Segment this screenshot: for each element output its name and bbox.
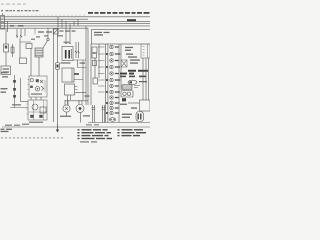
coil HT wire drop	[47, 28, 49, 38]
aux drop	[34, 28, 36, 34]
wire drops with connectors	[17, 29, 25, 38]
twisted pair 2	[102, 105, 106, 123]
solenoid resistor oval	[136, 112, 144, 122]
starter motor M2	[76, 105, 84, 113]
relay label	[61, 62, 71, 63]
relay assembly box 1	[28, 76, 48, 97]
small label between wires	[80, 62, 86, 63]
coil label	[31, 31, 52, 40]
ECU outline box	[92, 30, 152, 45]
second diagnostic wire	[20, 78, 22, 102]
fuse F1	[11, 44, 14, 57]
bus drop wires center	[58, 17, 78, 44]
wires near ECU	[91, 44, 99, 105]
wire into igniter top	[74, 60, 83, 100]
legend column B	[118, 129, 147, 136]
switch box	[20, 58, 27, 64]
relay coil 2	[35, 86, 44, 91]
feed wire to motors	[65, 100, 88, 102]
terminal blob left	[30, 115, 33, 118]
pin stub wires	[98, 47, 105, 92]
labels above bottom wire	[5, 124, 29, 126]
wires into M2	[79, 100, 82, 105]
box2 label below	[29, 122, 43, 123]
relay coil 3	[32, 104, 38, 110]
label box on bus right	[127, 19, 136, 21]
left small text rows	[1, 72, 8, 93]
connector drop wires	[76, 42, 79, 58]
sensor label row	[120, 76, 146, 78]
solenoid label	[122, 114, 132, 118]
wires into M1	[65, 100, 68, 105]
wire into box2 lower	[10, 107, 28, 109]
small comp boxes near ECU	[92, 47, 97, 66]
right component box J1	[141, 44, 150, 58]
label above wire	[12, 104, 21, 105]
sensor box lower	[93, 78, 98, 84]
relay coil 1	[30, 79, 33, 82]
dotted legend row	[1, 137, 63, 138]
noise filter box	[121, 60, 127, 67]
bus wire 1	[1, 16, 150, 18]
dark label dashes right	[120, 70, 148, 75]
junction box center	[53, 29, 58, 34]
terminal blob right	[39, 115, 42, 118]
wire to relay block	[30, 49, 32, 77]
resistor block	[62, 68, 74, 82]
wire stub x7.5	[7, 21, 9, 32]
right text rows mid	[126, 54, 140, 64]
bottom left text	[1, 129, 13, 133]
right text rows upper	[125, 47, 133, 51]
right bottom box	[140, 100, 151, 111]
coil secondary wire	[38, 57, 40, 76]
wire drop A	[5, 29, 7, 44]
lower bus line right	[88, 122, 150, 124]
wires box1 to box2	[31, 97, 41, 100]
dark terminal	[122, 98, 126, 101]
wire to box	[128, 102, 140, 104]
bus wire 4	[1, 23, 150, 25]
long wire x88	[87, 28, 89, 105]
long vertical wire x53.5	[53, 28, 55, 122]
wire into box2 upper	[21, 101, 29, 103]
right wires down	[143, 58, 149, 100]
sensor block gray	[122, 85, 140, 90]
connector arrows	[16, 35, 22, 37]
hatch strip in box1	[44, 80, 46, 92]
ECU inner label	[94, 32, 110, 36]
main relay U1	[62, 47, 73, 61]
switch feed wire	[20, 38, 31, 58]
legend column A	[78, 129, 113, 139]
relay connector marks	[65, 43, 71, 45]
labels under circles	[60, 115, 90, 117]
connector marks on drops	[75, 51, 80, 53]
legend footnote	[80, 141, 97, 142]
M2 tail wire	[80, 113, 82, 123]
bus wire 2	[1, 18, 88, 20]
splice marks on bus	[10, 25, 24, 26]
contact box 2	[40, 107, 46, 113]
fusible link block	[1, 13, 5, 29]
wires from ECU bottom right	[119, 44, 121, 123]
contact block dark	[36, 79, 39, 82]
ignition coil T1	[35, 38, 49, 57]
dark splice dash	[74, 73, 79, 75]
faint page header	[1, 4, 26, 5]
condenser on wire	[56, 63, 60, 70]
component box bottom left	[1, 66, 11, 75]
long vertical wire x57.5	[57, 28, 59, 130]
tiny label above bottom wires	[86, 124, 99, 125]
igniter circle M1	[63, 105, 70, 117]
connector label row top right	[88, 12, 150, 14]
title text top left	[1, 10, 39, 11]
tick wire	[76, 92, 86, 94]
wire color labels above bus	[4, 15, 84, 17]
label dashes under box	[2, 76, 8, 77]
small box mid left	[26, 44, 32, 49]
strip filled rows	[106, 53, 108, 114]
resistor R1	[4, 44, 9, 52]
label right of junction box	[57, 30, 76, 36]
ECU connector strip	[106, 44, 108, 123]
wire below R1	[5, 52, 7, 66]
injector box with circles	[121, 91, 133, 98]
long wire x86	[85, 26, 87, 105]
text left of box	[120, 104, 137, 109]
bus wire 3	[1, 20, 150, 22]
ECU pin labels	[115, 46, 121, 113]
wires below igniter	[68, 95, 71, 105]
diagnostic wire with connectors	[13, 75, 16, 108]
coil blob	[30, 86, 33, 88]
ECU pin circles	[109, 45, 115, 121]
relay top label	[64, 42, 70, 43]
oval label	[139, 81, 147, 82]
oxygen sensor oval	[128, 80, 137, 84]
ground arrow	[56, 124, 59, 133]
wire bus to distributor	[73, 60, 87, 68]
igniter box	[65, 84, 78, 95]
small label lower	[85, 95, 90, 96]
bottom border wire	[2, 126, 150, 128]
relay assembly box 2	[27, 100, 48, 120]
twisted pair 1	[92, 105, 96, 123]
bus wire 5	[1, 25, 150, 27]
bus wire 6	[1, 27, 88, 29]
box1 inner label	[31, 93, 42, 94]
